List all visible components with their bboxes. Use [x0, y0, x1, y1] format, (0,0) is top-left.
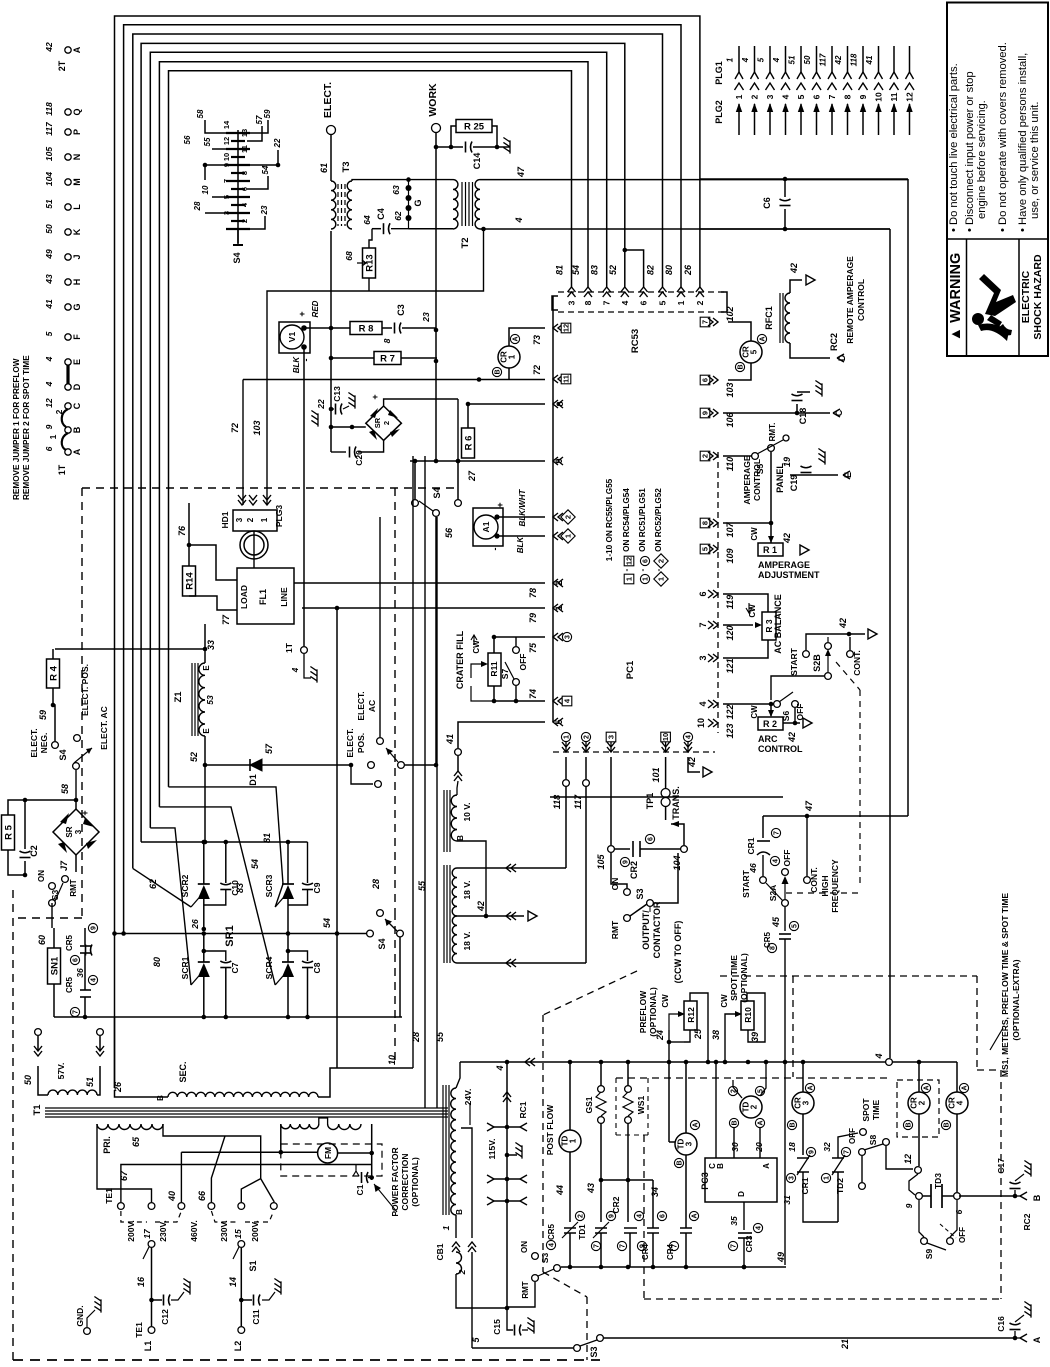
svg-text:RED: RED [311, 300, 320, 317]
svg-text:60: 60 [37, 935, 47, 945]
svg-text:45: 45 [771, 916, 781, 928]
svg-text:FM: FM [323, 1147, 333, 1159]
svg-text:3: 3 [607, 735, 616, 739]
RC53 pin 4 [621, 287, 629, 297]
svg-text:ELECT.: ELECT. [356, 691, 366, 720]
wire 9 row [410, 460, 545, 462]
wire PRI left to TE1 [97, 1124, 152, 1202]
wire 65 riser [163, 1124, 261, 1179]
svg-text:107: 107 [725, 522, 735, 538]
switch S4 polarity [367, 930, 374, 937]
svg-text:A: A [693, 1122, 700, 1127]
pin boxed 8 [700, 518, 710, 528]
wire 2 row [294, 582, 545, 584]
svg-text:9: 9 [809, 1150, 816, 1154]
svg-text:-: - [654, 568, 663, 571]
wire 103 row [267, 291, 369, 505]
fork RC1 pair 3 [505, 1199, 510, 1204]
wire bus line 1 [115, 16, 700, 1088]
svg-text:C7: C7 [230, 962, 240, 973]
svg-text:1: 1 [554, 605, 564, 610]
svg-text:LOAD: LOAD [239, 585, 249, 609]
resistor R7 [331, 357, 374, 359]
svg-text:4: 4 [549, 1243, 556, 1247]
PLG2 pin 7 [831, 104, 833, 135]
svg-text:78: 78 [528, 588, 538, 598]
svg-text:6: 6 [639, 300, 649, 305]
svg-text:D1: D1 [248, 774, 258, 786]
svg-text:105: 105 [596, 854, 606, 870]
svg-text:+: + [297, 311, 307, 316]
svg-text:3: 3 [698, 655, 708, 660]
svg-text:CONTROL: CONTROL [758, 744, 803, 754]
link S1 blades [148, 1241, 155, 1248]
svg-text:SPOT: SPOT [861, 1098, 871, 1122]
svg-text:Z1: Z1 [173, 691, 184, 703]
svg-text:115V.: 115V. [487, 1139, 497, 1160]
PLG1 pin 11 [893, 46, 895, 72]
svg-text:Q: Q [72, 108, 82, 115]
svg-text:REMOVE JUMPER 2 FOR SPOT TIME: REMOVE JUMPER 2 FOR SPOT TIME [22, 355, 31, 500]
PC1 bottom pin 1 [562, 742, 570, 752]
svg-text:CONTACTOR: CONTACTOR [652, 901, 662, 958]
PC1 bottom dashed edge [553, 751, 715, 753]
wire E fork [790, 474, 838, 476]
svg-text:11: 11 [562, 375, 571, 383]
svg-text:56: 56 [444, 527, 454, 538]
svg-text:S5: S5 [755, 464, 765, 475]
svg-text:42: 42 [787, 732, 797, 743]
switch S3 output contactor [624, 889, 631, 896]
PC1 bottom pin 4 [684, 742, 692, 752]
svg-text:S3: S3 [540, 1253, 550, 1264]
contact CR5 top [84, 928, 86, 945]
thyristor SCR3 [287, 842, 289, 884]
wire 53 FL1 line to SEC [336, 608, 338, 1068]
svg-text:23: 23 [260, 205, 269, 215]
board PC3 [705, 1158, 777, 1202]
dashed box high freq [859, 690, 861, 888]
svg-text:ARC: ARC [758, 734, 778, 744]
connector PLG3 HD1 [233, 510, 277, 531]
lamp CR1 [498, 346, 520, 368]
svg-text:6: 6 [643, 559, 650, 563]
svg-text:E: E [202, 665, 211, 671]
circuit breaker FL1 [237, 568, 294, 624]
svg-text:R 1: R 1 [763, 545, 777, 555]
svg-text:55: 55 [203, 137, 212, 146]
svg-text:6: 6 [812, 94, 822, 99]
svg-text:R 7: R 7 [380, 354, 395, 365]
svg-text:10: 10 [874, 92, 884, 102]
svg-text:5: 5 [44, 331, 54, 336]
svg-text:C9: C9 [312, 882, 322, 893]
svg-text:NEG.: NEG. [39, 733, 49, 754]
switch S7 [513, 647, 520, 654]
svg-text:10: 10 [201, 185, 210, 194]
svg-text:A: A [760, 336, 767, 341]
winding 10V [443, 790, 445, 852]
resistor R6 [462, 428, 475, 458]
svg-text:G: G [72, 303, 82, 310]
RC53 pin 1 [677, 287, 685, 297]
svg-text:66: 66 [197, 1190, 207, 1201]
svg-text:R 2: R 2 [763, 719, 777, 729]
terminal D wire 4 [65, 384, 71, 390]
svg-text:17: 17 [142, 1228, 152, 1239]
svg-text:C13: C13 [332, 386, 342, 402]
contact CR5 ladder [564, 1227, 576, 1229]
svg-text:117: 117 [44, 121, 54, 136]
svg-text:26: 26 [683, 264, 693, 276]
svg-text:2: 2 [918, 1100, 927, 1105]
svg-text:8: 8 [382, 338, 392, 343]
svg-text:4: 4 [773, 859, 780, 863]
svg-text:43: 43 [586, 1183, 596, 1194]
winding 18V upper [452, 868, 457, 916]
svg-text:ON RC52/PLG52: ON RC52/PLG52 [654, 488, 663, 552]
svg-text:M: M [72, 178, 82, 186]
svg-text:1: 1 [676, 300, 686, 305]
wire S2B dashed link [836, 662, 860, 690]
svg-text:118: 118 [44, 102, 54, 116]
wire B to 42 row [457, 841, 486, 916]
svg-text:CR3: CR3 [744, 1235, 754, 1252]
wire 26 column [114, 1017, 116, 1088]
snubber SN1 [48, 948, 61, 984]
svg-text:6: 6 [701, 378, 710, 382]
svg-text:74: 74 [528, 689, 538, 699]
svg-text:68: 68 [344, 251, 354, 261]
svg-text:200V.: 200V. [126, 1220, 136, 1241]
svg-text:32: 32 [822, 1142, 832, 1152]
svg-text:72: 72 [532, 365, 542, 375]
svg-text:22: 22 [316, 399, 326, 410]
capacitor C14 [436, 146, 463, 148]
RC53 pin 8 [584, 287, 592, 297]
svg-text:+: + [495, 502, 505, 507]
PLG1 pin 4 [785, 46, 787, 72]
svg-text:52: 52 [189, 752, 199, 762]
S4 wires right [247, 120, 268, 133]
svg-text:A: A [72, 46, 82, 53]
svg-text:30: 30 [730, 1142, 740, 1152]
resistor R8 [350, 322, 382, 335]
svg-text:1: 1 [260, 517, 269, 522]
svg-text:62: 62 [393, 211, 403, 221]
svg-text:121: 121 [725, 658, 735, 673]
svg-text:CR5: CR5 [65, 934, 74, 951]
svg-text:A: A [808, 1085, 815, 1090]
svg-text:39: 39 [750, 1032, 760, 1042]
svg-text:A: A [924, 1085, 931, 1090]
svg-text:(OPTIONAL): (OPTIONAL) [648, 987, 658, 1037]
svg-text:6: 6 [954, 1209, 964, 1214]
svg-text:T3: T3 [341, 161, 352, 172]
wire rail top feed [456, 1062, 460, 1088]
svg-text:B: B [732, 1120, 739, 1125]
svg-text:RC2: RC2 [1022, 1213, 1032, 1230]
svg-text:▲ WARNING: ▲ WARNING [948, 253, 964, 341]
dashed power factor box [281, 1144, 382, 1176]
svg-text:34: 34 [650, 1187, 660, 1197]
PLG2 pin 11 [893, 104, 895, 135]
dashed vertical mid [394, 488, 396, 912]
svg-text:BLK/WHT: BLK/WHT [518, 488, 527, 526]
control rail bottom [561, 1266, 786, 1268]
svg-text:• Do not operate with covers r: • Do not operate with covers removed. [997, 42, 1009, 232]
svg-text:C3: C3 [396, 304, 406, 316]
svg-text:2: 2 [240, 219, 249, 223]
svg-text:AC BALANCE: AC BALANCE [773, 594, 783, 654]
svg-text:200V.: 200V. [250, 1220, 260, 1241]
contact CR4 ladder A [685, 1155, 687, 1228]
svg-text:110: 110 [725, 457, 735, 471]
capacitor C20 [358, 440, 384, 452]
svg-text:9: 9 [609, 1214, 616, 1218]
switch S4 polarity [52, 742, 59, 749]
svg-text:119: 119 [725, 595, 735, 609]
PLG1 pin 7 [831, 46, 833, 72]
capacitor C11 [241, 1299, 252, 1301]
svg-text:SCR2: SCR2 [180, 874, 190, 897]
svg-text:117: 117 [573, 794, 583, 809]
wire WORK down [435, 132, 437, 461]
potentiometer R2 [770, 704, 772, 716]
svg-text:103: 103 [252, 420, 262, 435]
svg-text:2: 2 [701, 454, 710, 458]
svg-text:C12: C12 [160, 1309, 170, 1325]
contact CR5 bottom [84, 953, 86, 995]
svg-text:J7: J7 [59, 860, 69, 871]
wire gate row 807 [159, 807, 275, 985]
svg-text:6: 6 [660, 1214, 667, 1218]
svg-text:A: A [513, 336, 520, 341]
rectifier SR3 [53, 809, 99, 855]
resistor R5 [2, 815, 15, 850]
svg-text:82: 82 [646, 265, 656, 275]
svg-text:• Disconnect input power or st: • Disconnect input power or stop [964, 71, 976, 232]
terminal L wire 51 [65, 204, 71, 210]
svg-text:5: 5 [658, 300, 668, 305]
svg-text:GS1: GS1 [584, 1096, 594, 1113]
PLG2 pin 1 [738, 104, 740, 135]
wire 5 [472, 1347, 573, 1349]
wire 72 row [243, 379, 545, 381]
svg-text:83: 83 [590, 265, 600, 275]
svg-text:P: P [72, 129, 82, 135]
svg-text:52: 52 [608, 265, 618, 275]
svg-text:58: 58 [196, 109, 205, 118]
capacitor C1 power factor [368, 1177, 372, 1179]
svg-text:ELECT.: ELECT. [345, 728, 355, 757]
svg-text:LINE: LINE [279, 587, 289, 607]
svg-text:4: 4 [91, 978, 98, 982]
svg-text:5: 5 [750, 349, 759, 354]
svg-text:42: 42 [789, 263, 799, 274]
svg-text:C4: C4 [376, 208, 386, 220]
control rail top [460, 1061, 957, 1063]
tap links dashed [121, 1211, 147, 1222]
svg-text:S7: S7 [500, 669, 510, 680]
svg-text:CONT.: CONT. [852, 650, 862, 676]
svg-text:41: 41 [865, 55, 874, 65]
jumper D-E [66, 365, 69, 384]
transformer T1 core [45, 1107, 448, 1109]
svg-text:15: 15 [233, 1229, 243, 1239]
svg-text:S2B: S2B [812, 654, 822, 672]
svg-text:11: 11 [240, 145, 249, 153]
svg-text:OFF: OFF [518, 654, 528, 671]
svg-text:4: 4 [686, 735, 693, 739]
svg-text:S3: S3 [50, 890, 60, 901]
RC53 pin 3 [568, 287, 576, 297]
svg-text:ON RC54/PLG54: ON RC54/PLG54 [622, 488, 631, 552]
svg-text:61: 61 [319, 163, 329, 173]
svg-text:RFC1: RFC1 [764, 306, 774, 330]
svg-text:9: 9 [858, 94, 868, 99]
wire 24V to CB1 [455, 1215, 457, 1238]
wire 107 [723, 522, 771, 524]
svg-text:10: 10 [661, 733, 670, 741]
svg-text:OFF: OFF [782, 850, 792, 867]
svg-text:5: 5 [701, 547, 710, 551]
svg-text:64: 64 [362, 215, 372, 225]
svg-text:1T: 1T [284, 642, 294, 653]
wire 28 55 verticals [412, 456, 414, 1068]
connector RC2 pin A [1020, 1334, 1027, 1342]
svg-text:2T: 2T [57, 60, 67, 71]
relay CR2 coil [918, 1062, 920, 1092]
svg-text:B: B [906, 1122, 913, 1127]
wire jog 52 to pin6 [625, 250, 644, 287]
svg-text:123: 123 [725, 723, 735, 738]
thermostat WS1 [627, 1062, 629, 1086]
capacitor C13 [334, 408, 343, 410]
svg-text:8: 8 [701, 521, 710, 525]
svg-text:58: 58 [60, 784, 70, 794]
wire T3 top link [352, 180, 450, 181]
svg-text:SHOCK HAZARD: SHOCK HAZARD [1032, 254, 1044, 340]
svg-text:C20: C20 [354, 450, 364, 466]
svg-text:5: 5 [796, 94, 806, 99]
wire gate row 787 [169, 787, 284, 907]
relay CR4 coil [956, 1062, 958, 1092]
svg-text:50: 50 [44, 224, 54, 234]
svg-text:42: 42 [687, 757, 697, 768]
dashed box CR2 [897, 1080, 939, 1137]
svg-text:2: 2 [554, 580, 564, 585]
svg-text:42: 42 [476, 901, 486, 912]
svg-text:RMT: RMT [69, 879, 78, 896]
wire FL1 LINE to pin1 [294, 607, 302, 609]
PLG1 pin 9 [862, 46, 864, 72]
svg-text:42: 42 [782, 533, 792, 544]
ammeter A1 [473, 508, 503, 546]
wire S2B to S6 [771, 676, 824, 700]
RC53 pin 7 [603, 287, 611, 297]
svg-text:33: 33 [206, 640, 216, 650]
capacitor C3 [382, 327, 392, 329]
svg-text:B: B [72, 426, 82, 433]
svg-text:120: 120 [725, 625, 735, 640]
RC53 pin 2 [696, 287, 704, 297]
dashed enclosure main [82, 487, 460, 489]
terminal N wire 105 [65, 154, 71, 160]
wire 42 arrow from pin circled 4 [688, 757, 700, 772]
svg-text:H: H [72, 279, 82, 286]
potentiometer R11 [488, 653, 501, 686]
svg-text:E: E [202, 728, 211, 734]
svg-text:1: 1 [564, 534, 573, 538]
wire right rail lower [700, 228, 890, 230]
wire 59 [52, 688, 54, 705]
PLG2 pin 12 [909, 104, 911, 135]
PLG1 pin 8 [847, 46, 849, 72]
svg-text:CR5: CR5 [547, 1223, 556, 1240]
svg-text:4: 4 [637, 1214, 644, 1218]
transformer T3 [331, 181, 336, 229]
contact CR2 ladder [624, 1227, 637, 1229]
svg-text:HD1: HD1 [220, 511, 230, 528]
svg-text:7: 7 [731, 1244, 738, 1248]
svg-text:104: 104 [672, 855, 682, 870]
svg-text:START: START [741, 869, 751, 898]
svg-text:CR4: CR4 [666, 1243, 675, 1260]
wire 67 TE1 riser [121, 1165, 372, 1190]
svg-text:CW: CW [720, 994, 729, 1008]
svg-text:POS.: POS. [356, 733, 366, 753]
resistor R4 [47, 659, 60, 688]
capacitor C9 [307, 842, 309, 883]
svg-text:B: B [716, 1163, 725, 1169]
wire 74 [494, 686, 545, 701]
PC1 pin 12 [553, 324, 563, 332]
svg-text:2: 2 [584, 735, 591, 739]
svg-text:57V.: 57V. [56, 1063, 66, 1080]
svg-text:C1: C1 [355, 1184, 365, 1195]
wire 106 to C fork [723, 412, 830, 414]
svg-text:23: 23 [421, 312, 431, 323]
svg-text:A: A [1032, 1336, 1042, 1343]
PC1 pin boxed 4 [553, 697, 563, 705]
switch S3 on rmt [49, 883, 56, 890]
wire 16 [151, 1248, 153, 1326]
svg-text:54: 54 [250, 859, 260, 869]
pin boxed 5 [700, 544, 710, 554]
svg-text:PRI.: PRI. [102, 1136, 112, 1154]
svg-text:40: 40 [167, 1191, 177, 1202]
svg-text:65: 65 [131, 1136, 141, 1147]
svg-text:7: 7 [594, 1244, 601, 1248]
svg-text:2: 2 [578, 1214, 585, 1218]
svg-text:118: 118 [850, 53, 859, 66]
wire bus line 6 [159, 62, 588, 807]
svg-text:AC: AC [367, 700, 377, 712]
svg-text:TE1: TE1 [134, 1322, 144, 1338]
svg-text:54: 54 [571, 265, 581, 275]
wire to C2 R5 [25, 799, 76, 801]
svg-text:CW: CW [472, 640, 481, 654]
svg-text:4: 4 [741, 57, 750, 63]
svg-text:1: 1 [508, 354, 517, 359]
spark gap G [408, 180, 410, 229]
svg-text:28: 28 [193, 201, 202, 211]
svg-text:FREQUENCY: FREQUENCY [830, 859, 840, 913]
PLG2 pin 9 [862, 104, 864, 135]
timer TD3 [685, 1062, 687, 1133]
svg-text:PC1: PC1 [625, 660, 636, 679]
